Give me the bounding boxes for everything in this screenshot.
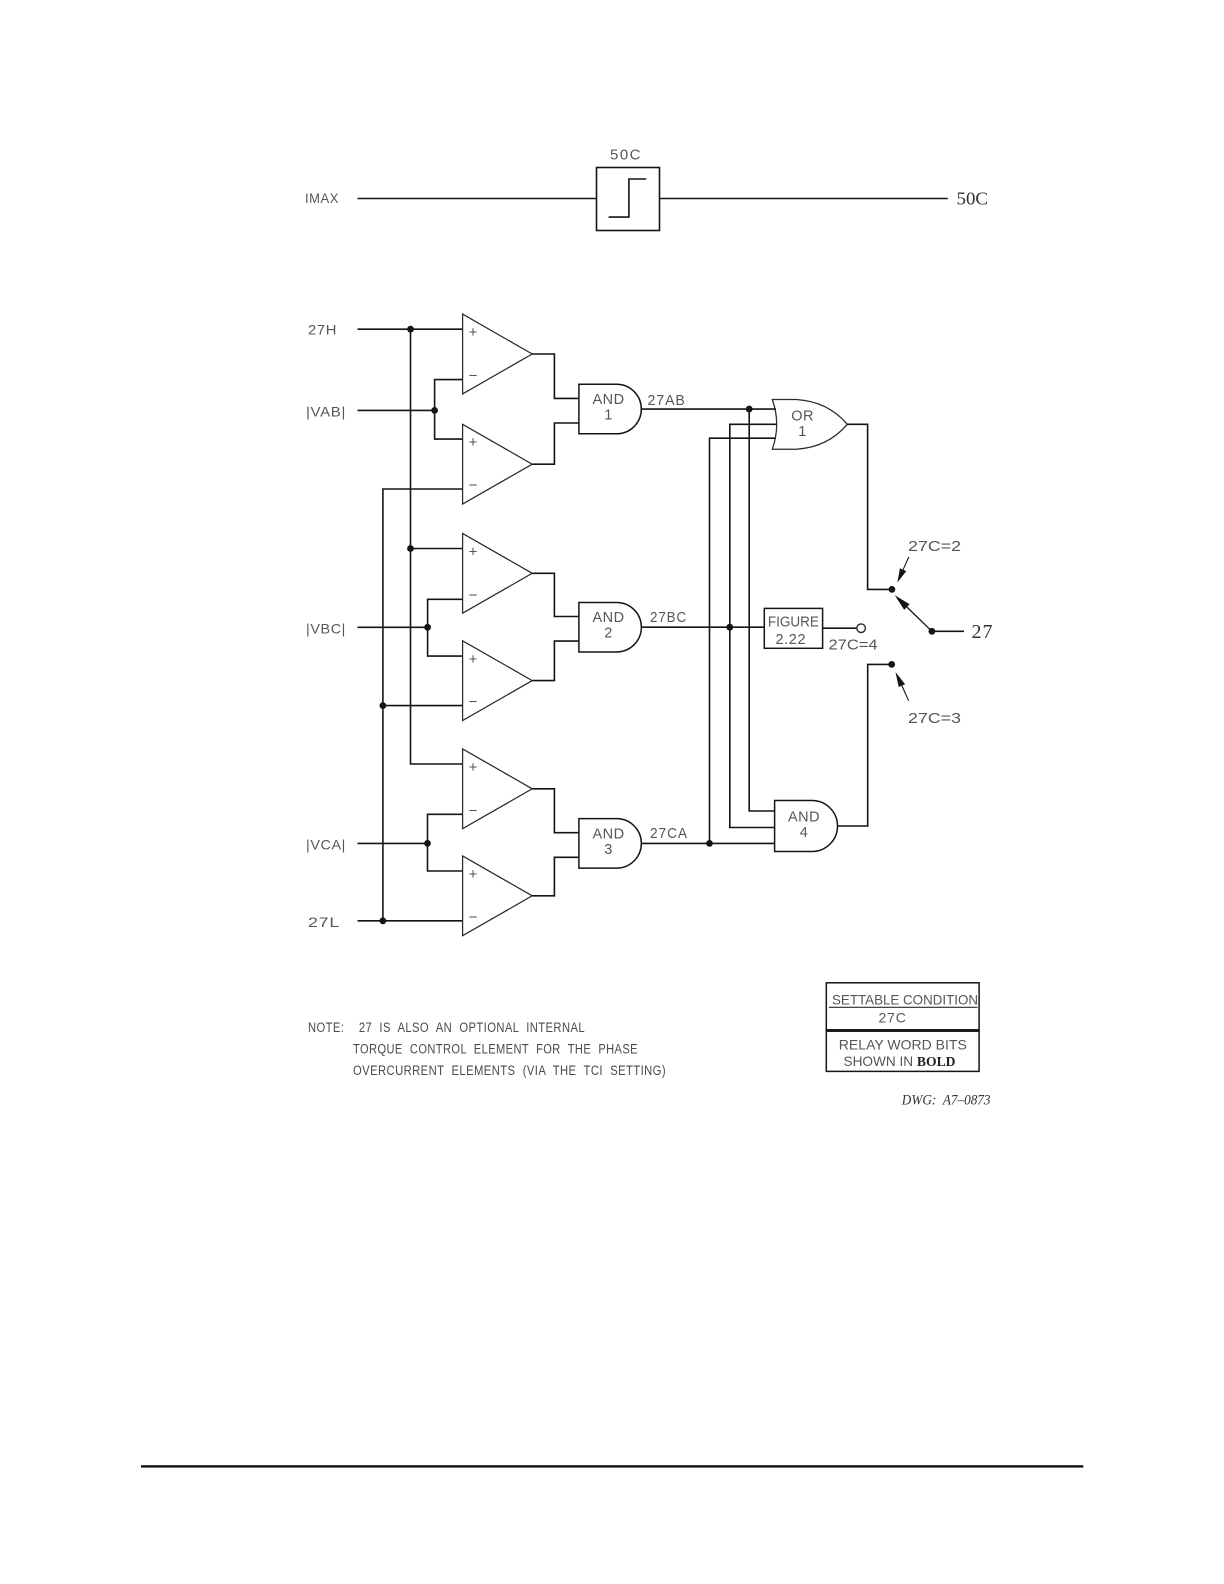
svg-text:27L: 27L (308, 914, 340, 930)
wire 27L bus to comparator 4 minus input (383, 705, 463, 707)
svg-text:AND: AND (788, 810, 820, 826)
arrow pointer to 27C=2 contact (903, 557, 909, 570)
svg-text:IMAX: IMAX (305, 190, 339, 206)
gate AND 3 (579, 819, 641, 869)
svg-text:3: 3 (604, 842, 613, 858)
junction VCA (424, 840, 431, 847)
svg-text:OVERCURRENT ELEMENTS (VIA THE: OVERCURRENT ELEMENTS (VIA THE TCI SETTIN… (353, 1063, 666, 1078)
svg-text:27: 27 (972, 621, 994, 643)
switch blade from pole toward 27C=2 contact (907, 607, 932, 631)
svg-text:50C: 50C (610, 147, 642, 164)
svg-text:+: + (469, 866, 478, 883)
svg-text:−: − (469, 587, 478, 604)
wire 27AB down to AND 4 (749, 409, 774, 811)
box FIGURE 2.22 (764, 608, 822, 648)
junction 27L bus bottom (380, 917, 387, 924)
comparator 6 (VCA vs 27L) (463, 856, 533, 936)
svg-text:27BC: 27BC (650, 609, 687, 626)
gate AND 2 (579, 602, 641, 652)
comparator 5 (27H vs VCA) (463, 749, 533, 829)
wire 27CA up to OR 1 (710, 438, 777, 843)
svg-text:4: 4 (800, 825, 809, 841)
svg-text:27C: 27C (879, 1009, 907, 1025)
svg-text:27C=2: 27C=2 (908, 538, 961, 555)
wire 27H vertical bus (411, 329, 463, 764)
svg-text:DWG: A7–0873: DWG: A7–0873 (901, 1093, 991, 1109)
svg-text:2: 2 (604, 626, 613, 642)
svg-text:−: − (469, 477, 478, 494)
wire 27CA from AND 3 to AND 4 (641, 842, 774, 844)
wire comparator 4 output to AND 2 (532, 641, 579, 681)
svg-text:+: + (469, 759, 478, 776)
svg-text:27CA: 27CA (650, 825, 688, 842)
svg-text:FIGURE: FIGURE (768, 614, 819, 630)
comparator 1 (27H vs VAB) (463, 314, 533, 394)
comparator 4 (VBC vs 27L) (463, 641, 533, 721)
wire 27BC from AND 2 to FIGURE 2.22 box (641, 626, 764, 628)
svg-text:NOTE: 27 IS ALSO AN OPTIONAL: NOTE: 27 IS ALSO AN OPTIONAL INTERNAL (308, 1020, 585, 1035)
wire comparator 2 output to AND 1 (532, 423, 579, 464)
svg-text:27C=4: 27C=4 (829, 637, 878, 654)
svg-text:|VAB|: |VAB| (306, 404, 346, 420)
svg-text:OR: OR (791, 408, 814, 424)
wire 27H bus to comparator 3 plus input (411, 548, 463, 550)
wire comparator 6 output to AND 3 (532, 857, 579, 896)
junction VAB (431, 407, 438, 414)
svg-text:−: − (469, 694, 478, 711)
wire VAB input (358, 409, 435, 411)
svg-text:27C=3: 27C=3 (908, 710, 961, 727)
gate OR 1 (772, 400, 847, 450)
step symbol inside 50C box (609, 179, 647, 217)
svg-text:2.22: 2.22 (775, 632, 806, 648)
comparator 2 (VAB vs 27L) (463, 424, 533, 504)
node switch pole (929, 628, 936, 635)
wire comparator 1 output to AND 1 (532, 354, 579, 398)
junction 27BC branch (726, 624, 733, 631)
node switch upper contact 27C=2 (889, 586, 896, 593)
junction 27H bus to comparator 3 (407, 545, 414, 552)
level-detector box 50C (597, 168, 660, 231)
svg-text:27AB: 27AB (648, 392, 686, 409)
svg-text:|VBC|: |VBC| (306, 620, 346, 636)
svg-text:|VCA|: |VCA| (306, 837, 346, 853)
junction 27H bus top (407, 326, 414, 333)
wire 27AB from AND 1 to OR 1 (641, 408, 776, 410)
svg-text:AND: AND (592, 610, 624, 626)
junction VBC (424, 624, 431, 631)
arrow pointer to 27C=3 contact (902, 686, 909, 701)
comparator 3 (27H vs VBC) (463, 533, 533, 613)
wire 27L vertical bus (383, 489, 463, 921)
svg-text:1: 1 (604, 408, 613, 424)
svg-text:+: + (469, 434, 478, 451)
junction 27L bus to comparator 4 (380, 702, 387, 709)
svg-text:SETTABLE CONDITION: SETTABLE CONDITION (832, 992, 978, 1008)
footer rule (141, 1465, 1083, 1467)
svg-text:50C: 50C (957, 189, 989, 209)
wire comparator 3 output to AND 2 (532, 573, 579, 616)
svg-text:−: − (469, 802, 478, 819)
wire VBC input (358, 626, 428, 628)
wire IMAX to 50C box (358, 198, 597, 200)
wire 27BC down to AND 4 (730, 627, 775, 827)
svg-text:+: + (469, 543, 478, 560)
gate AND 4 (775, 801, 838, 852)
node switch lower contact 27C=3 (888, 661, 895, 668)
wire comparator 5 output to AND 3 (532, 789, 579, 833)
box SETTABLE CONDITION (826, 983, 979, 1072)
svg-text:−: − (469, 909, 478, 926)
gate AND 1 (579, 384, 641, 434)
wire 50C box to output (660, 198, 948, 200)
wire 27H input (358, 328, 463, 330)
svg-text:AND: AND (592, 392, 624, 408)
wire 27L input (358, 920, 463, 922)
wire VCA bracket (428, 814, 463, 871)
node 27C=4 open contact circle (857, 624, 866, 633)
svg-text:+: + (469, 324, 478, 341)
junction 27AB branch (746, 406, 753, 413)
svg-text:TORQUE CONTROL ELEMENT FOR THE: TORQUE CONTROL ELEMENT FOR THE PHASE (353, 1041, 638, 1056)
svg-text:−: − (469, 368, 478, 385)
note text block (308, 1020, 666, 1078)
wire AND 4 output to switch lower contact (838, 664, 892, 826)
wire OR 1 output to switch upper contact (847, 424, 892, 589)
junction 27CA branch (706, 840, 713, 847)
svg-text:1: 1 (798, 424, 807, 440)
svg-text:RELAY WORD BITS: RELAY WORD BITS (839, 1036, 967, 1052)
wire FIGURE box to 27C=4 contact (823, 627, 857, 629)
wire switch pole to 27 output (932, 630, 964, 632)
svg-text:AND: AND (592, 826, 624, 842)
svg-text:+: + (469, 651, 478, 668)
wire VAB bracket (435, 380, 463, 440)
wire VCA input (358, 842, 428, 844)
svg-text:27H: 27H (308, 322, 337, 338)
wire 27BC up to OR 1 (730, 424, 777, 627)
wire VBC bracket (428, 599, 463, 656)
svg-text:SHOWN IN BOLD: SHOWN IN BOLD (844, 1053, 956, 1070)
